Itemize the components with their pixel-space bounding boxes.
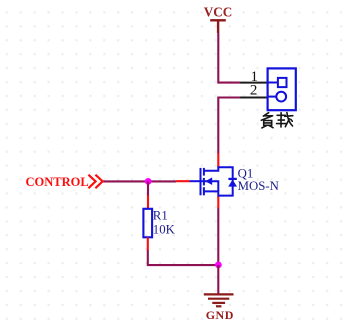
connector J body — [268, 68, 296, 110]
resistor R1 top pin (red) — [147, 195, 149, 209]
connector J pin 1 lead — [240, 82, 268, 84]
svg-text:CONTROL: CONTROL — [26, 175, 89, 189]
wire source down to bottom rail — [217, 208, 219, 265]
power port VCC bar symbol — [210, 20, 226, 33]
resistor R1 bottom pin (red) — [147, 237, 149, 250]
wire CONTROL to junction to gate — [103, 180, 176, 182]
svg-text:2: 2 — [250, 83, 258, 99]
svg-text:MOS-N: MOS-N — [238, 179, 279, 193]
transistor Q1 gate pin (red) — [176, 180, 190, 182]
svg-text:10K: 10K — [153, 223, 176, 237]
port chevron >> — [88, 175, 102, 189]
wire junction down to R1 — [147, 181, 149, 195]
junction node at CONTROL/R1 — [145, 178, 152, 185]
transistor Q1 MOS-N symbol body — [190, 167, 233, 196]
transistor Q1 drain pin (red) — [217, 153, 219, 167]
wire VCC to pin1 corner — [218, 33, 240, 83]
connector pin1 internal square — [268, 78, 287, 87]
transistor Q1 body diode — [228, 179, 237, 187]
ground symbol — [204, 294, 234, 306]
transistor Q1 source pin (red) — [217, 196, 219, 208]
wire R1 to bottom rail — [148, 250, 219, 265]
svg-text:R1: R1 — [153, 209, 168, 223]
resistor R1 body — [143, 209, 152, 238]
transistor Q1 gate arrow — [205, 177, 212, 185]
wire bottom rail to ground — [217, 265, 219, 294]
connector J pin 2 lead — [240, 97, 268, 99]
wire pin2 corner down — [218, 98, 240, 154]
svg-text:GND: GND — [206, 308, 234, 322]
connector pin2 internal circle — [268, 92, 287, 102]
connector label fuzai (load) drawn strokes — [261, 113, 293, 128]
junction node at bottom rail — [215, 262, 222, 269]
svg-text:VCC: VCC — [204, 5, 233, 20]
